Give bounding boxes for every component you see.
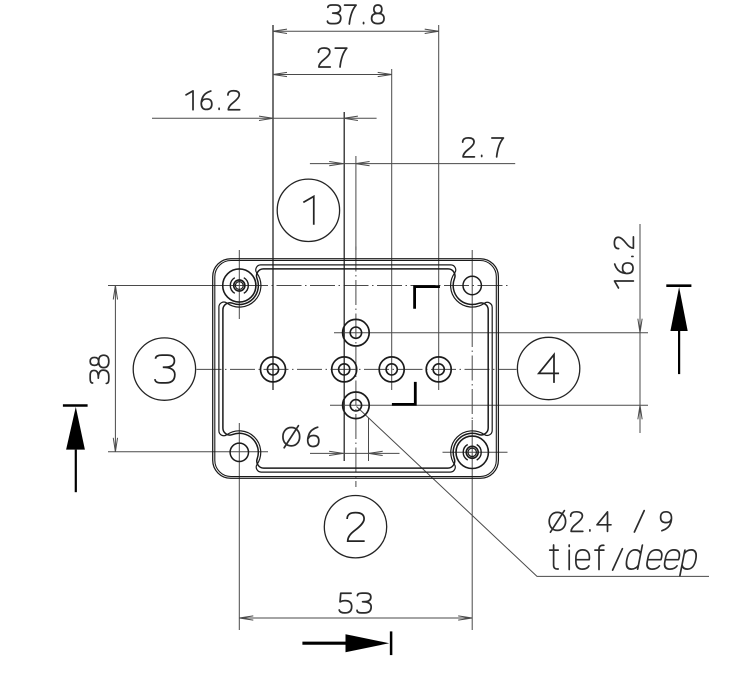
balloon 1 [277, 179, 339, 241]
extension line 53 right (bottom-right hole vertical) [471, 420, 473, 630]
row hole left [261, 357, 286, 382]
extension line x=344.2 (16.2 right / o6 left, through center hole) [343, 112, 345, 461]
text 53 [339, 593, 371, 613]
extension line o6 right edge [368, 418, 370, 461]
extension line bottom hole horizontal / 16.2 right bottom [330, 404, 648, 406]
text o2.4 / 9 [549, 511, 671, 533]
dimension line 16.2 left [152, 117, 377, 119]
enclosure outer edge inner line [215, 261, 497, 477]
balloon 2 [324, 496, 386, 558]
centerline top mounting-hole row [108, 285, 263, 287]
text 38 rotated [90, 355, 109, 383]
bottom-right screw slot arcs [463, 445, 468, 461]
section arrow bottom [302, 642, 345, 645]
centerline bottom mounting-hole row [108, 451, 268, 453]
bottom-left corner hole [230, 443, 248, 461]
dimension line 38 vertical [114, 286, 116, 452]
centerline horizontal main (hole row) [197, 368, 517, 370]
dimension line o6 [310, 452, 400, 454]
section elbow mark lower [392, 382, 415, 405]
section arrow left [63, 404, 88, 407]
top-left screw boss circle [223, 269, 256, 302]
text 27 [318, 48, 346, 67]
extension line x=355.9 (2.7 right, to vertical centerline) [355, 156, 357, 250]
section arrow right [666, 284, 691, 287]
section elbow mark upper [415, 287, 440, 309]
dimension line 27 [273, 74, 392, 76]
row hole center [332, 357, 357, 382]
balloon 3 [133, 338, 195, 400]
text tief/deep [550, 545, 623, 570]
extension line 53 left (bottom-left hole vertical) [238, 423, 240, 630]
enclosure outer edge [213, 259, 499, 479]
dimension line 37.8 [273, 30, 439, 32]
top-left screw hole rings [234, 280, 245, 291]
centerline top-left hole vertical [238, 250, 240, 319]
text 2.7 [463, 138, 504, 157]
top-right corner hole [463, 276, 481, 294]
extension line top hole horizontal / 16.2 right top [334, 332, 648, 334]
row hole mid-right [379, 357, 404, 382]
bottom-right screw boss circle [456, 436, 488, 468]
extension line x=391.7 (27 right, through hole) [391, 69, 393, 390]
inner wall outline with corner bosses [223, 269, 488, 468]
top-left screw slot arcs [230, 278, 235, 294]
bottom o6 hole [343, 392, 370, 419]
dimension line 2.7 [310, 163, 515, 165]
dimension line 53 [239, 617, 472, 619]
text o6 [283, 426, 319, 448]
text deep italic [624, 545, 699, 576]
extension line x=273 (37.8/27/16.2 left, through left hole) [272, 25, 274, 390]
top o6 hole [343, 319, 370, 346]
row hole right [426, 357, 451, 382]
extension line x=438.7 (37.8 right, through hole) [438, 25, 440, 390]
balloon 4 [517, 337, 579, 399]
centerline top-right hole vertical [471, 250, 473, 322]
leader line o2.4/9 tief [357, 407, 710, 577]
dimension line 16.2 right vertical [639, 224, 641, 433]
bottom-right screw hole rings [466, 446, 478, 458]
centerline vertical main (top/bottom holes) [355, 247, 357, 488]
lid step outline [219, 265, 492, 472]
text 37.8 [327, 5, 384, 24]
text 16.2 left [186, 91, 240, 110]
text 16.2 right rotated [614, 237, 633, 288]
